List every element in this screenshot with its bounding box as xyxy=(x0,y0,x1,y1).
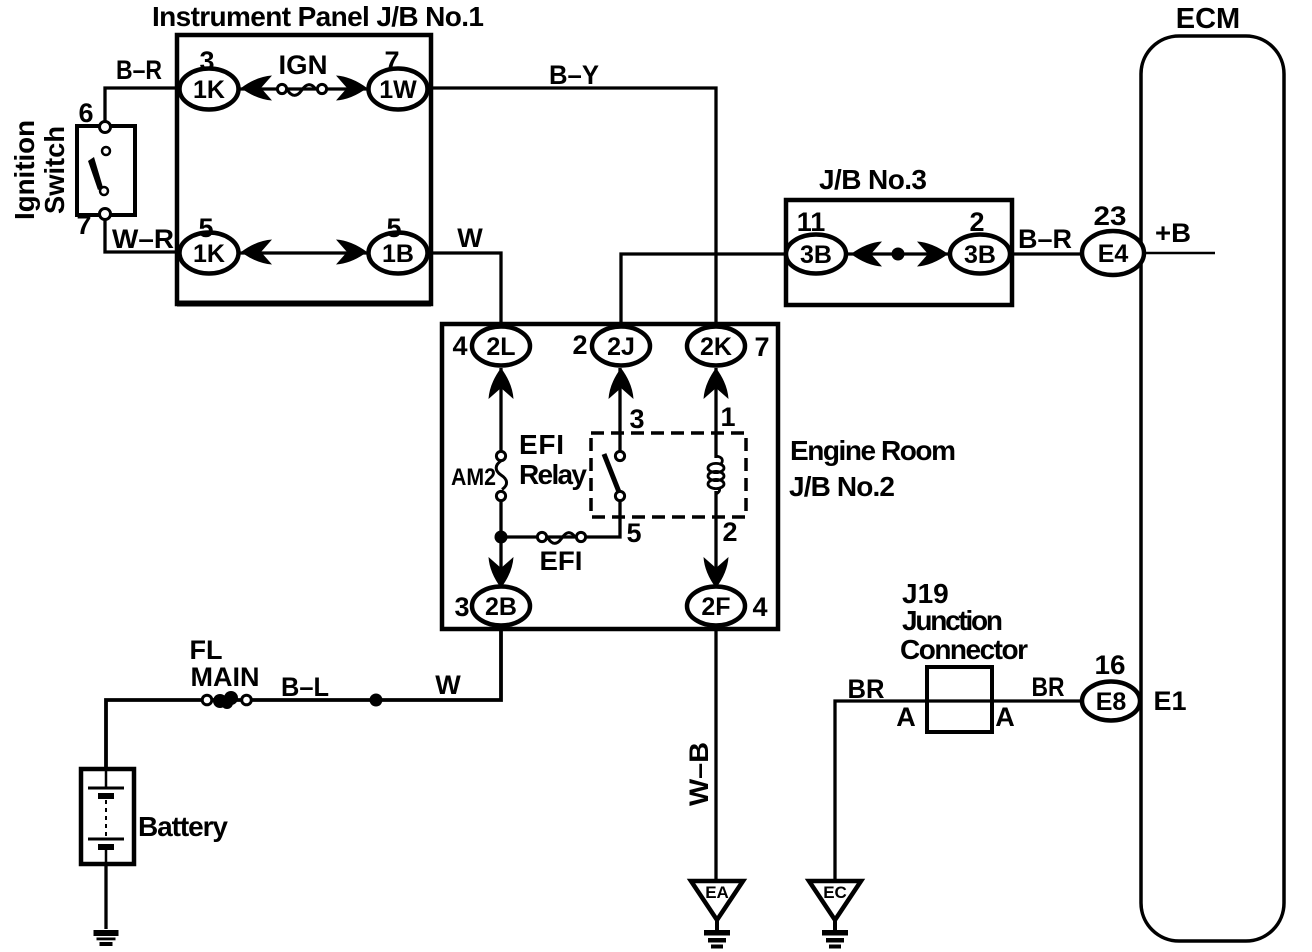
svg-text:B–R: B–R xyxy=(116,55,162,85)
svg-text:W–B: W–B xyxy=(684,742,714,806)
svg-text:5: 5 xyxy=(386,213,401,243)
svg-text:2F: 2F xyxy=(701,593,730,621)
svg-text:4: 4 xyxy=(752,592,767,622)
svg-text:2: 2 xyxy=(969,207,984,237)
svg-text:Battery: Battery xyxy=(138,811,228,842)
svg-text:5: 5 xyxy=(626,518,641,548)
svg-text:W: W xyxy=(435,670,461,700)
svg-text:J/B No.2: J/B No.2 xyxy=(789,471,895,502)
svg-text:B–R: B–R xyxy=(1018,224,1072,254)
svg-text:1B: 1B xyxy=(382,240,414,268)
svg-text:E8: E8 xyxy=(1096,688,1127,716)
svg-text:3B: 3B xyxy=(964,241,996,269)
svg-text:6: 6 xyxy=(78,98,93,128)
svg-text:4: 4 xyxy=(452,331,467,361)
svg-text:EA: EA xyxy=(705,883,729,902)
svg-text:Switch: Switch xyxy=(39,126,70,214)
svg-text:E1: E1 xyxy=(1153,686,1186,716)
svg-text:11: 11 xyxy=(797,207,826,237)
svg-text:AM2: AM2 xyxy=(451,464,496,491)
svg-text:A: A xyxy=(995,702,1015,732)
svg-text:BR: BR xyxy=(848,674,885,704)
svg-text:2B: 2B xyxy=(485,593,517,621)
svg-text:1K: 1K xyxy=(193,240,225,268)
svg-text:Ignition: Ignition xyxy=(9,120,40,220)
svg-text:EC: EC xyxy=(823,883,847,902)
svg-text:B–L: B–L xyxy=(281,672,329,702)
svg-text:7: 7 xyxy=(384,46,399,76)
svg-text:Relay: Relay xyxy=(519,459,587,490)
svg-text:5: 5 xyxy=(198,213,213,243)
svg-text:IGN: IGN xyxy=(279,50,328,80)
svg-text:J/B No.3: J/B No.3 xyxy=(819,164,927,195)
svg-text:7: 7 xyxy=(754,332,769,362)
svg-text:2J: 2J xyxy=(607,333,635,361)
svg-text:2K: 2K xyxy=(700,333,732,361)
svg-text:A: A xyxy=(896,702,916,732)
svg-text:BR: BR xyxy=(1032,672,1065,702)
svg-text:3: 3 xyxy=(199,46,214,76)
svg-text:FL: FL xyxy=(190,635,223,665)
svg-text:3B: 3B xyxy=(800,241,832,269)
svg-text:2L: 2L xyxy=(486,333,515,361)
svg-text:7: 7 xyxy=(76,210,91,240)
svg-text:EFI: EFI xyxy=(519,429,564,460)
svg-text:1W: 1W xyxy=(379,76,417,104)
svg-text:B–Y: B–Y xyxy=(549,60,599,90)
svg-text:3: 3 xyxy=(629,404,644,434)
svg-text:ECM: ECM xyxy=(1176,3,1240,35)
svg-text:W: W xyxy=(457,223,483,253)
svg-text:23: 23 xyxy=(1094,201,1127,231)
svg-text:W–R: W–R xyxy=(112,224,174,254)
svg-text:1K: 1K xyxy=(193,76,225,104)
svg-text:Engine Room: Engine Room xyxy=(790,435,956,466)
svg-text:16: 16 xyxy=(1095,650,1126,680)
svg-text:+B: +B xyxy=(1155,218,1191,248)
svg-text:E4: E4 xyxy=(1098,240,1129,268)
svg-text:2: 2 xyxy=(572,330,587,360)
svg-text:2: 2 xyxy=(722,517,737,547)
svg-text:EFI: EFI xyxy=(540,546,583,576)
svg-text:Instrument Panel J/B No.1: Instrument Panel J/B No.1 xyxy=(152,1,484,32)
svg-text:MAIN: MAIN xyxy=(191,662,260,692)
svg-text:Junction: Junction xyxy=(902,605,1003,636)
svg-text:3: 3 xyxy=(454,592,469,622)
svg-text:Connector: Connector xyxy=(900,634,1028,665)
svg-text:1: 1 xyxy=(720,402,735,432)
